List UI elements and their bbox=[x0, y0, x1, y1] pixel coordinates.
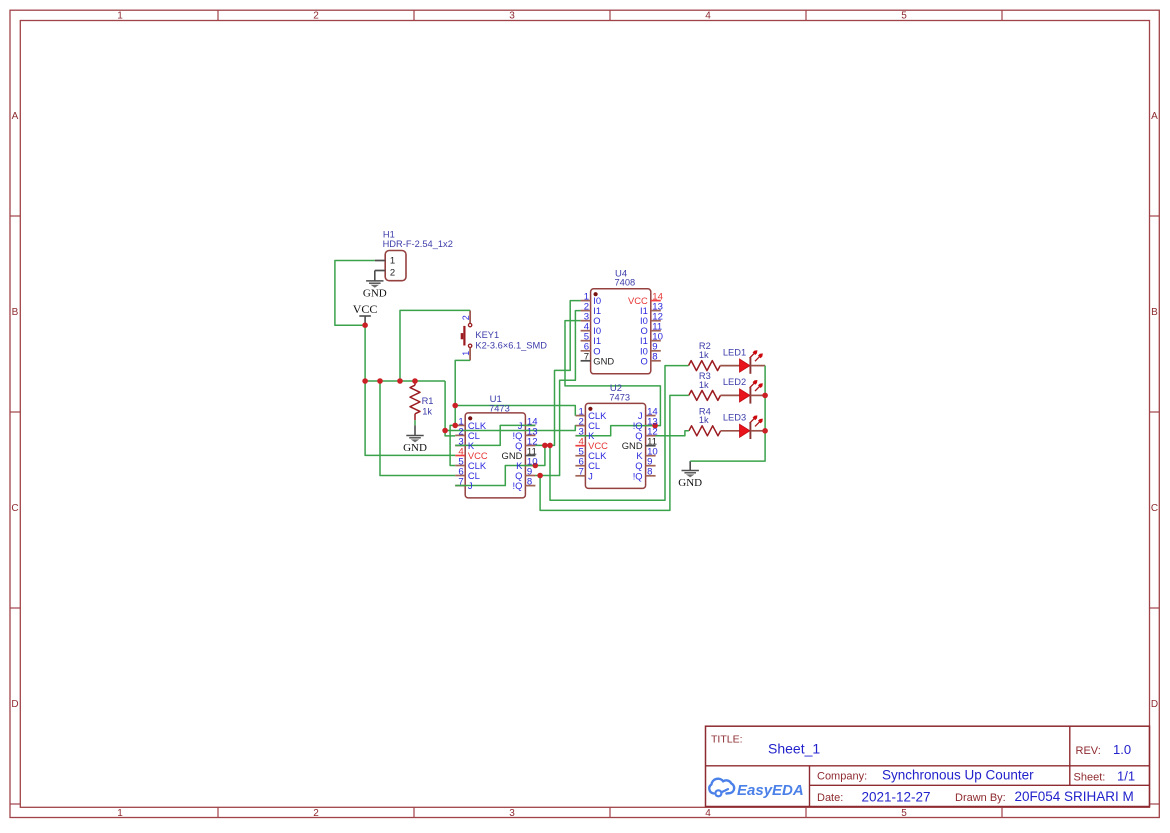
junction bus node B bbox=[377, 378, 383, 384]
svg-text:8: 8 bbox=[527, 477, 532, 488]
wire CL bus to U2 pin2 CL bbox=[445, 426, 575, 431]
svg-text:LED2: LED2 bbox=[723, 377, 746, 387]
svg-text:2: 2 bbox=[390, 267, 395, 278]
svg-text:1: 1 bbox=[461, 351, 471, 356]
svg-text:EasyEDA: EasyEDA bbox=[737, 782, 804, 799]
svg-text:Sheet_1: Sheet_1 bbox=[768, 741, 820, 757]
svg-text:Date:: Date: bbox=[817, 792, 843, 804]
svg-text:7: 7 bbox=[579, 467, 584, 478]
svg-text:GND: GND bbox=[593, 355, 614, 366]
wire Q2 branch down to R3 bbox=[540, 395, 689, 510]
svg-text:LED3: LED3 bbox=[723, 413, 746, 423]
svg-text:1: 1 bbox=[117, 808, 123, 819]
wire VCC junction down to bus bbox=[364, 325, 366, 381]
junction Q1 node B bbox=[547, 443, 553, 449]
svg-text:2021-12-27: 2021-12-27 bbox=[862, 790, 931, 805]
svg-text:1: 1 bbox=[390, 255, 395, 266]
wire LED gnd stem bbox=[689, 461, 691, 470]
title block bbox=[706, 726, 1150, 806]
svg-text:GND: GND bbox=[403, 442, 427, 454]
junction U2 pin13 node bbox=[652, 423, 658, 429]
svg-text:5: 5 bbox=[901, 808, 907, 819]
svg-text:!Q: !Q bbox=[633, 470, 643, 481]
IC U2 7473 dual JK flip-flop bbox=[575, 403, 655, 488]
svg-text:1k: 1k bbox=[699, 415, 709, 425]
svg-text:D: D bbox=[1151, 699, 1158, 710]
svg-text:2: 2 bbox=[461, 315, 471, 320]
R4 zigzag bbox=[689, 426, 721, 436]
svg-text:7473: 7473 bbox=[609, 393, 630, 403]
svg-text:2: 2 bbox=[313, 11, 319, 22]
LED LED3 bbox=[740, 415, 763, 439]
svg-text:!Q: !Q bbox=[512, 480, 522, 491]
IC U1 7473 dual JK flip-flop bbox=[455, 413, 535, 498]
junction VCC symbol node bbox=[362, 322, 368, 328]
svg-text:B: B bbox=[12, 307, 19, 318]
wire Q1 branch to U1 pin10 K bbox=[535, 445, 545, 465]
IC U4 7408 quad AND bbox=[581, 289, 661, 374]
svg-text:1k: 1k bbox=[699, 350, 709, 360]
svg-text:Synchronous Up Counter: Synchronous Up Counter bbox=[882, 767, 1034, 782]
svg-text:TITLE:: TITLE: bbox=[711, 734, 743, 746]
svg-text:HDR-F-2.54_1x2: HDR-F-2.54_1x2 bbox=[383, 239, 453, 249]
svg-text:GND: GND bbox=[363, 288, 387, 300]
wire LED2 cathode lead bbox=[750, 394, 765, 396]
svg-text:C: C bbox=[11, 503, 18, 514]
wire U1 Q1 pin12 up to U4 pin1 bbox=[535, 301, 580, 446]
resistor R4 1k bbox=[689, 426, 740, 436]
wire node to U2 pin1 CLK bbox=[455, 406, 575, 416]
svg-text:4: 4 bbox=[705, 11, 711, 22]
svg-text:1/1: 1/1 bbox=[1117, 769, 1135, 784]
LED LED2 bbox=[740, 380, 763, 404]
wire H1 pin1 to VCC junction bbox=[335, 261, 375, 326]
svg-text:B: B bbox=[1151, 307, 1158, 318]
svg-text:R1: R1 bbox=[422, 396, 434, 406]
svg-text:GND: GND bbox=[678, 477, 702, 489]
svg-text:C: C bbox=[1151, 503, 1158, 514]
power VCC symbol bbox=[359, 316, 371, 325]
resistor R3 1k bbox=[689, 390, 740, 400]
switch KEY1 bbox=[461, 310, 472, 360]
svg-text:A: A bbox=[12, 111, 19, 122]
svg-text:LED1: LED1 bbox=[723, 347, 746, 357]
junction bus node A bbox=[362, 378, 368, 384]
svg-text:8: 8 bbox=[647, 467, 652, 478]
junction Q1 node A bbox=[542, 443, 548, 449]
svg-text:7473: 7473 bbox=[489, 403, 510, 413]
svg-text:20F054 SRIHARI M: 20F054 SRIHARI M bbox=[1015, 789, 1134, 804]
junction CL net node bbox=[442, 428, 448, 434]
svg-text:1k: 1k bbox=[422, 407, 432, 417]
LED LED1 bbox=[740, 350, 763, 374]
svg-text:4: 4 bbox=[705, 808, 711, 819]
svg-text:Sheet:: Sheet: bbox=[1074, 771, 1106, 783]
wire KEY1 pin1 down to node bbox=[455, 360, 470, 405]
svg-text:Drawn By:: Drawn By: bbox=[955, 792, 1006, 804]
wire bus up to KEY1 pin2 bbox=[400, 310, 470, 381]
svg-text:K2-3.6×6.1_SMD: K2-3.6×6.1_SMD bbox=[475, 341, 547, 351]
wire U1 J2-K2 tie pin7 to pin10 bbox=[455, 466, 535, 486]
wire bus to U1 pin4 VCC bbox=[365, 381, 455, 455]
svg-text:J: J bbox=[468, 480, 473, 491]
resistor R1 1k bbox=[410, 381, 420, 420]
resistor R2 1k bbox=[689, 361, 740, 371]
wire U1 Q2 pin9 up to U4 pin2 bbox=[535, 311, 580, 476]
junction bus node R1 top bbox=[412, 378, 418, 384]
junction CLK net node bbox=[452, 403, 458, 409]
svg-text:D: D bbox=[11, 699, 18, 710]
wire U4 pin3 O down to U2 pin13 bbox=[565, 321, 660, 426]
wire LED3 cathode lead bbox=[750, 430, 765, 432]
svg-text:7: 7 bbox=[584, 352, 589, 363]
svg-text:3: 3 bbox=[509, 808, 515, 819]
junction LED2 cathode node bbox=[762, 393, 768, 399]
R2 zigzag bbox=[689, 361, 721, 371]
svg-text:3: 3 bbox=[509, 11, 515, 22]
wire Q1 branch down to R2 bbox=[550, 366, 689, 501]
wire LED1 cathode lead bbox=[750, 365, 765, 367]
svg-text:8: 8 bbox=[652, 352, 657, 363]
wire R1 to gnd pin bbox=[414, 420, 416, 425]
wire R1 gnd stem bbox=[414, 425, 416, 435]
wire LED cathode rail to GND bbox=[690, 366, 765, 462]
junction bus node C bbox=[397, 378, 403, 384]
wire U2 pin13 to pin3 K internal bbox=[576, 426, 656, 436]
wire U1 pin1 to pin5 CLK tie bbox=[450, 425, 455, 465]
wire node down to U1 pin1 CLK bbox=[454, 406, 456, 426]
svg-text:J: J bbox=[588, 470, 593, 481]
svg-text:Company:: Company: bbox=[817, 770, 867, 782]
svg-text:REV:: REV: bbox=[1076, 745, 1101, 757]
wire U2 Q pin12 to R4 bbox=[656, 431, 689, 436]
svg-text:VCC: VCC bbox=[353, 302, 378, 316]
svg-text:KEY1: KEY1 bbox=[475, 330, 499, 340]
svg-text:7408: 7408 bbox=[615, 278, 636, 288]
ground GND under LEDs bbox=[682, 471, 699, 478]
ground GND under R1 bbox=[406, 436, 423, 443]
junction Q2 node bbox=[537, 473, 543, 479]
svg-text:2: 2 bbox=[313, 808, 319, 819]
wire U1 J1-K1 tie pin14 to pin3 bbox=[455, 425, 535, 445]
wire VCC bus horizontal bbox=[365, 380, 445, 382]
junction LED3 cathode node bbox=[762, 428, 768, 434]
svg-text:1: 1 bbox=[117, 11, 123, 22]
svg-text:A: A bbox=[1151, 111, 1158, 122]
svg-text:5: 5 bbox=[901, 11, 907, 22]
connector H1 header bbox=[375, 251, 406, 281]
junction U1 pin10 node bbox=[533, 463, 539, 469]
wire bus down to U1 pin2 CL bbox=[445, 381, 455, 436]
R3 zigzag bbox=[689, 390, 721, 400]
ground GND under H1 bbox=[366, 281, 383, 288]
svg-text:1k: 1k bbox=[699, 380, 709, 390]
svg-text:O: O bbox=[641, 355, 648, 366]
svg-text:1.0: 1.0 bbox=[1113, 742, 1131, 757]
svg-text:7: 7 bbox=[458, 477, 463, 488]
resistor R1 zigzag bbox=[410, 385, 420, 414]
EasyEDA logo bbox=[709, 779, 803, 799]
wire H1 pin2 to ground bbox=[374, 271, 376, 281]
junction U1 pin1 node bbox=[452, 423, 458, 429]
wire bus to U1 pin6 CL bbox=[380, 381, 455, 476]
